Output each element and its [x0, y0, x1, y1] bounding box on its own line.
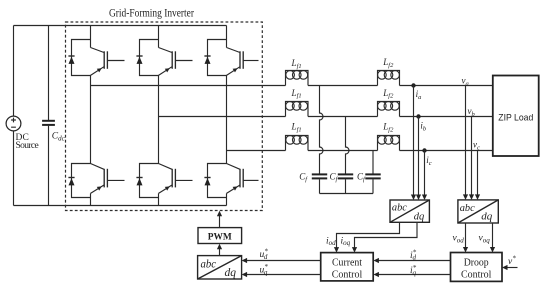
wire: id* reference (Droop to Current Control) — [373, 258, 450, 263]
svg-text:dq: dq — [414, 210, 425, 222]
Current Control box — [321, 253, 374, 281]
dashed box: Grid-Forming Inverter — [66, 22, 263, 211]
IGBT Q2 (bottom, leg A) with anti-parallel diode — [68, 164, 124, 198]
abc/dq block (current measurement) — [390, 200, 429, 222]
inductor Lf1 phase A — [286, 71, 309, 86]
wire: left bus lower segment — [13, 131, 15, 206]
inductor Lf2 phase C — [378, 136, 400, 151]
svg-text:abc: abc — [392, 202, 407, 214]
wire: vb measurement tap — [469, 117, 474, 200]
svg-text:dq: dq — [225, 265, 237, 279]
wire: ud* signal (Current Control to abc/dq) — [242, 258, 321, 263]
svg-text:Control: Control — [461, 270, 492, 281]
wire: uq* signal (Current Control to abc/dq) — [242, 272, 321, 277]
wire: voq signal (abc/dq to Droop Control) — [490, 223, 495, 253]
PWM box — [198, 228, 242, 244]
wire: filter tap B with hop over phase C — [346, 117, 350, 174]
wire: ia measurement tap — [411, 86, 416, 201]
capacitor Cf (phase C) — [365, 174, 380, 193]
svg-text:Source: Source — [16, 141, 39, 151]
wire: phase A line — [91, 85, 493, 87]
wire: abc/dq to PWM arrow — [217, 244, 222, 256]
svg-text:u*q: u*q — [260, 263, 269, 276]
node ib — [416, 114, 420, 118]
svg-text:dq: dq — [481, 211, 493, 223]
svg-text:Grid-Forming Inverter: Grid-Forming Inverter — [109, 5, 194, 19]
svg-text:Current: Current — [332, 257, 362, 268]
inductor Lf2 phase A — [378, 71, 400, 86]
svg-text:Control: Control — [332, 270, 363, 281]
wire: top DC rail — [14, 25, 227, 27]
ZIP Load box — [493, 76, 539, 157]
IGBT Q5 (top, leg C) with anti-parallel diode — [204, 26, 258, 76]
svg-text:ZIP Load: ZIP Load — [498, 113, 533, 124]
inductor Lf1 phase B — [286, 102, 309, 117]
svg-text:abc: abc — [460, 202, 475, 214]
wire: leg1 lower stub — [90, 193, 92, 205]
capacitor Cf (phase B) — [338, 174, 353, 193]
DC source — [6, 116, 39, 151]
wire: filter tap C — [372, 151, 374, 174]
svg-text:PWM: PWM — [208, 232, 232, 242]
wire: PWM to inverter arrow — [217, 211, 222, 228]
wire: va measurement tap — [463, 86, 468, 200]
capacitor Cf (phase A) — [312, 174, 327, 193]
capacitor Cdc — [42, 26, 66, 206]
wire: ib measurement tap — [416, 117, 421, 201]
abc/dq block (modulation) — [198, 256, 242, 279]
wire: bottom DC rail — [14, 205, 227, 207]
svg-text:i*q: i*q — [410, 264, 417, 277]
wire: leg3 lower stub — [226, 193, 228, 205]
svg-text:u*d: u*d — [260, 248, 269, 261]
wire: vc measurement tap — [475, 151, 480, 200]
node ia — [411, 83, 415, 87]
wire: phase B line — [159, 116, 493, 118]
abc/dq block (voltage measurement) — [458, 200, 498, 223]
wire: filter tap A with hops over phase B and C — [320, 86, 324, 174]
IGBT Q6 (bottom, leg C) with anti-parallel diode — [204, 164, 258, 198]
wire: iod signal (abc/dq to Current Control) — [334, 222, 400, 252]
wire: leg1 mid vertical — [90, 75, 92, 163]
wire: vod signal (abc/dq to Droop Control) — [463, 223, 468, 253]
wire: capacitor star bus — [320, 193, 374, 195]
wire: leg3 mid vertical — [226, 75, 228, 163]
node ic — [422, 148, 426, 152]
svg-text:i*d: i*d — [410, 248, 417, 261]
wire: left bus upper segment — [13, 26, 15, 117]
wire: leg2 mid vertical — [158, 75, 160, 163]
wire: iq* reference (Droop to Current Control) — [373, 272, 450, 277]
wire: leg2 lower stub — [158, 193, 160, 205]
wire: phase C line — [227, 150, 493, 152]
inductor Lf1 phase C — [286, 136, 309, 151]
IGBT Q4 (bottom, leg B) with anti-parallel diode — [136, 164, 192, 198]
svg-text:abc: abc — [201, 256, 217, 270]
wire: ioq signal (abc/dq to Current Control) — [352, 222, 417, 252]
IGBT Q3 (top, leg B) with anti-parallel diode — [136, 26, 192, 76]
Droop Control box — [451, 253, 503, 282]
svg-text:Droop: Droop — [464, 257, 489, 268]
wire: v* reference input — [502, 265, 518, 270]
inductor Lf2 phase B — [378, 102, 400, 117]
wire: ic measurement tap — [422, 151, 427, 201]
IGBT Q1 (top, leg A) with anti-parallel diode — [68, 26, 124, 76]
